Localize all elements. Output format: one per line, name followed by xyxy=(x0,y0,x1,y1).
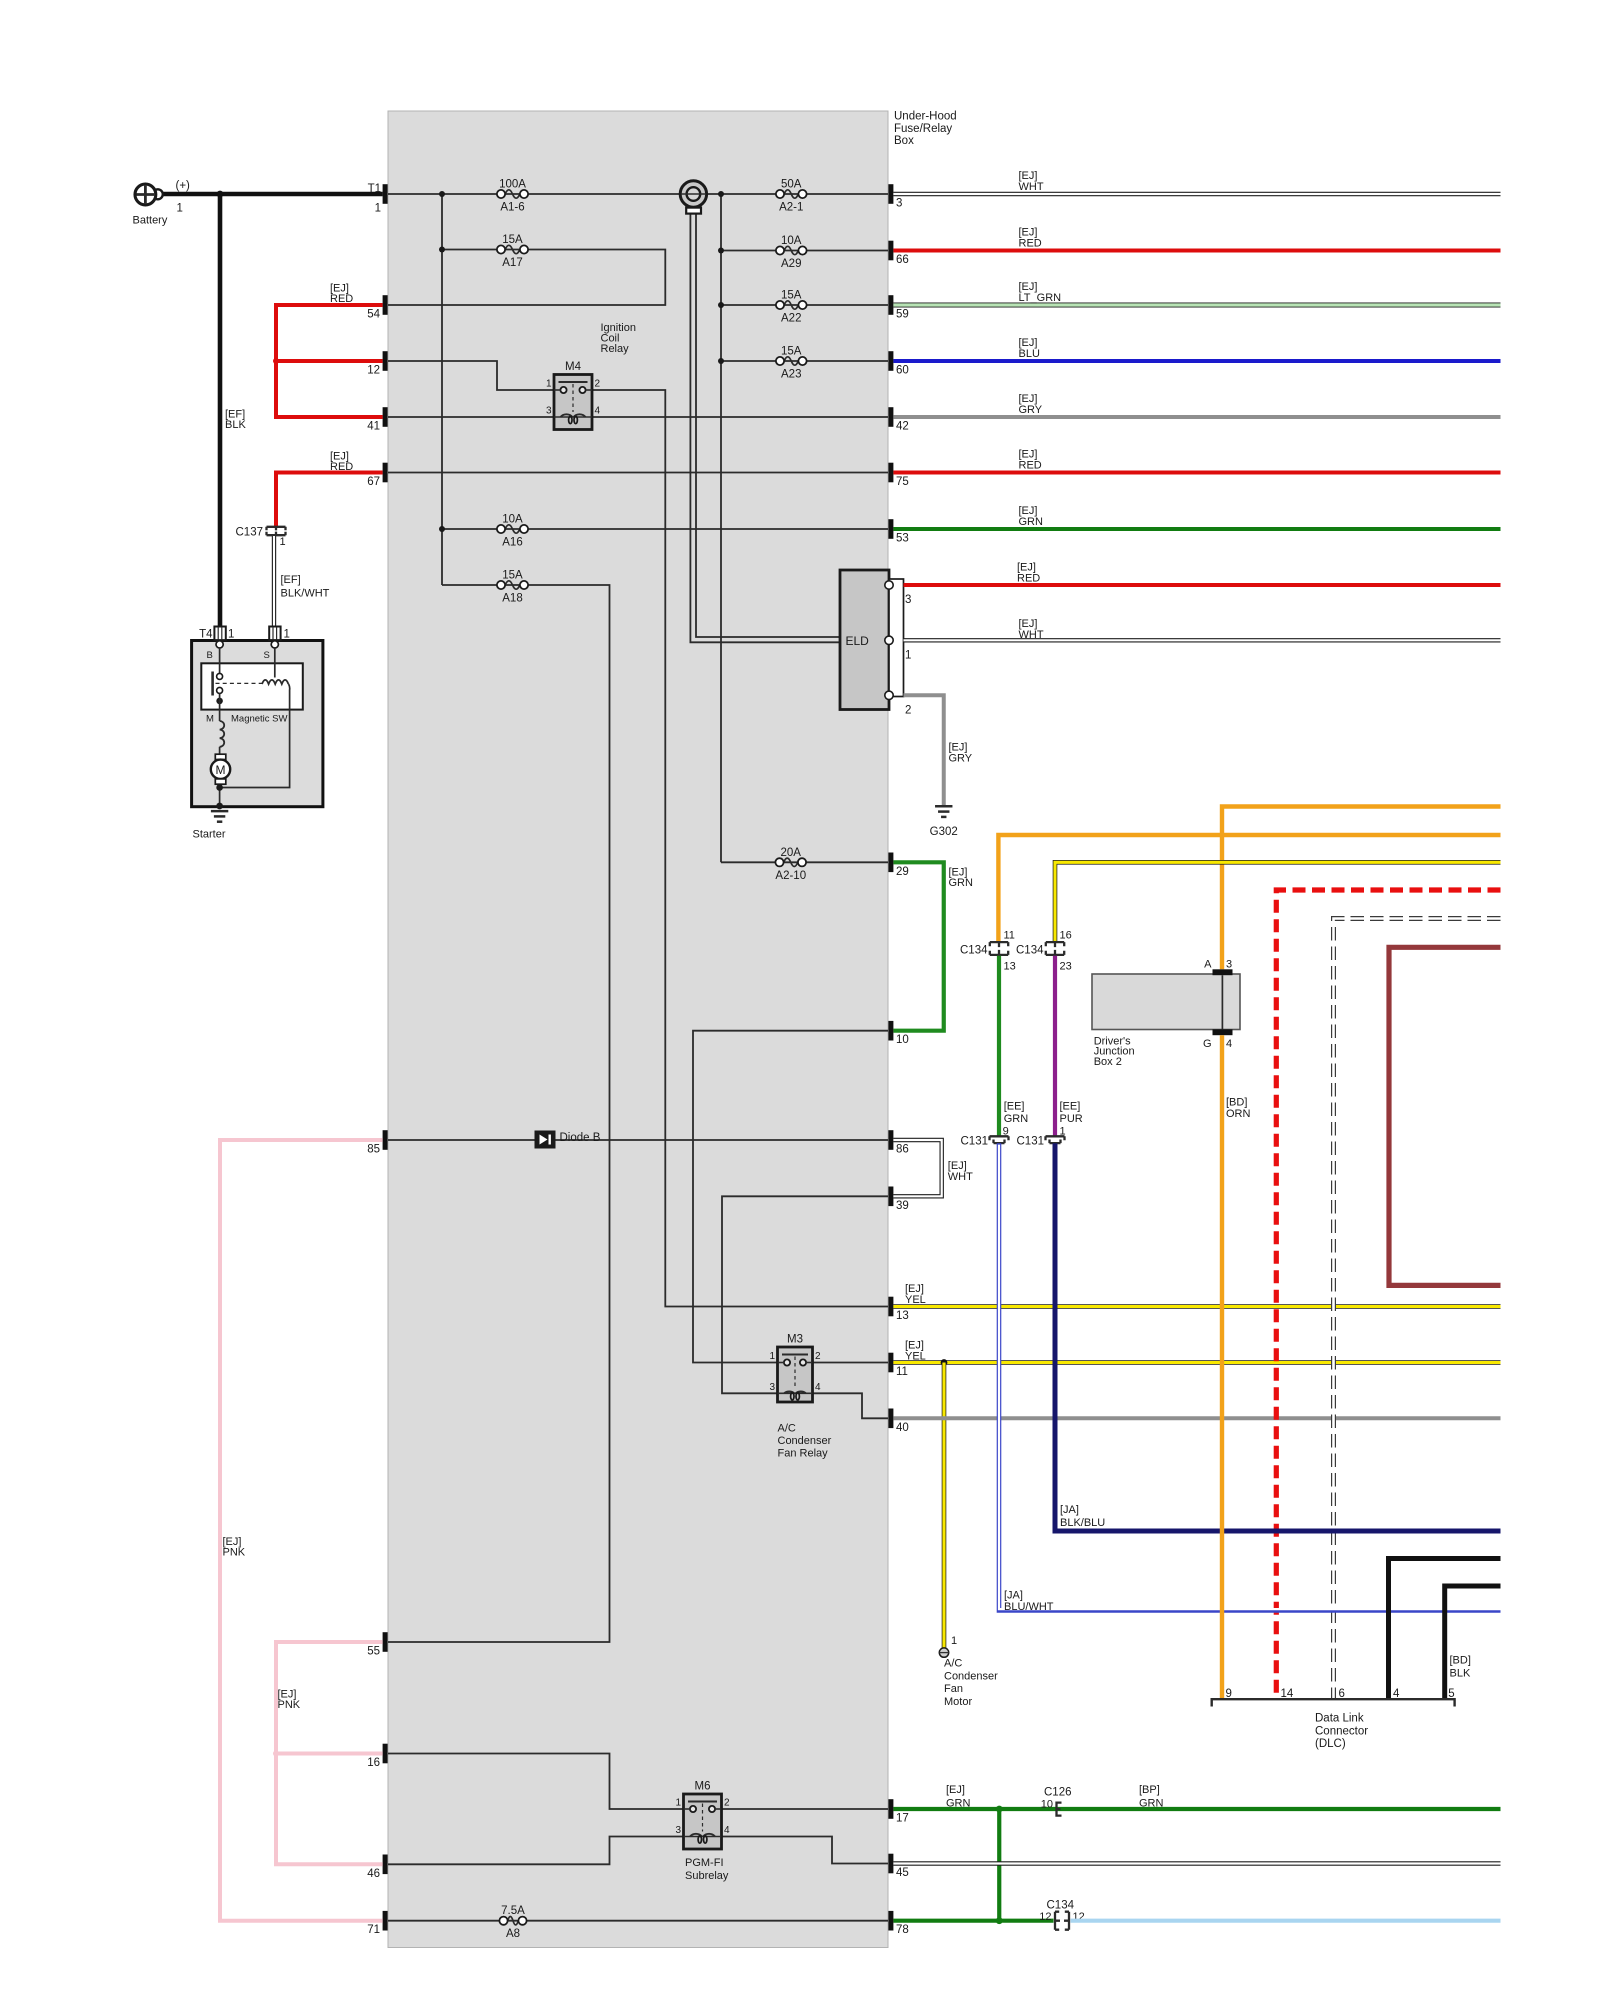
wire fuse A29 row to pin 66 xyxy=(721,250,888,252)
connector bar pin 42 (right edge) xyxy=(888,407,893,427)
wire [EJ] GRN pin 29 to pin 10 xyxy=(893,862,943,1030)
wire [EF] BLK/WHT C137 to starter S xyxy=(272,536,276,627)
svg-text:3: 3 xyxy=(905,594,911,606)
wire fuse A17 branch to pin 54 xyxy=(388,250,665,306)
wire DJB2 internal A-G xyxy=(1221,975,1223,1029)
svg-text:PUR: PUR xyxy=(1060,1113,1083,1125)
wire [JA] BLK/BLU C131-1 down and right xyxy=(1055,1143,1501,1531)
svg-text:A18: A18 xyxy=(502,593,522,605)
svg-text:15A: 15A xyxy=(781,346,802,358)
svg-text:M: M xyxy=(216,763,226,777)
svg-text:12: 12 xyxy=(367,365,380,377)
wire grommet bus outer line to ELD xyxy=(690,214,840,643)
starter contact fixed bar xyxy=(211,672,214,696)
wire contact to M coil xyxy=(219,693,221,721)
svg-text:M6: M6 xyxy=(695,1781,711,1793)
svg-text:60: 60 xyxy=(896,365,909,377)
wire T1 bus row (battery feed through 100A and 50A fuses to pin 3) xyxy=(388,193,888,195)
starter motor brush bottom xyxy=(215,779,226,784)
svg-text:BLU/WHT: BLU/WHT xyxy=(1004,1601,1054,1613)
junction green at x=999 (row 17) xyxy=(996,1806,1003,1813)
svg-text:78: 78 xyxy=(896,1924,909,1936)
svg-text:86: 86 xyxy=(896,1144,909,1156)
connector bar pin 55 (left edge) xyxy=(383,1632,388,1652)
svg-text:Condenser: Condenser xyxy=(778,1435,832,1447)
svg-text:G302: G302 xyxy=(930,826,958,838)
svg-text:A23: A23 xyxy=(781,369,801,381)
svg-text:53: 53 xyxy=(896,533,909,545)
svg-text:[BP]: [BP] xyxy=(1139,1784,1160,1796)
svg-text:6: 6 xyxy=(1339,1688,1345,1700)
wire [EJ] WHT pin 86 to pin 39 xyxy=(893,1140,941,1196)
svg-text:75: 75 xyxy=(896,476,909,488)
svg-text:Under-Hood: Under-Hood xyxy=(894,111,957,123)
starter contact lower point xyxy=(217,687,223,693)
wire [EJ] GRN pin 78 to C134-12 xyxy=(893,1919,1053,1923)
wire relay M3 pin 2 to pin 11 xyxy=(813,1362,889,1364)
svg-text:Relay: Relay xyxy=(601,343,630,355)
junction pink at pin 16 xyxy=(273,1751,279,1757)
fuse 20A A2-10 xyxy=(775,847,806,882)
svg-text:Fuse/Relay: Fuse/Relay xyxy=(894,123,952,135)
wire coil to motor xyxy=(219,747,221,754)
wire fuse A22 row to pin 59 xyxy=(721,304,888,306)
svg-text:9: 9 xyxy=(1003,1125,1009,1137)
wire motor to ground xyxy=(219,784,221,806)
connector bar pin 85 (left edge) xyxy=(383,1130,388,1150)
junction A17 feed xyxy=(439,247,445,253)
svg-text:LT_GRN: LT_GRN xyxy=(1019,292,1062,304)
starter motor M xyxy=(211,760,230,779)
svg-text:40: 40 xyxy=(896,1422,909,1434)
svg-text:1: 1 xyxy=(951,1635,957,1647)
connector C126 xyxy=(1057,1803,1062,1816)
wire red branch to pin 12 xyxy=(276,359,383,363)
svg-text:(DLC): (DLC) xyxy=(1315,1738,1346,1750)
wire vertical feed at x=442 xyxy=(441,194,443,585)
connector bar pin T1 (left edge) xyxy=(383,184,388,204)
wire YEL to C134 pin 16 xyxy=(1055,862,1501,941)
svg-text:C134: C134 xyxy=(1047,1900,1075,1912)
svg-text:A2-1: A2-1 xyxy=(779,202,803,214)
svg-text:2: 2 xyxy=(724,1798,730,1809)
wire [EJ] WHT ELD pin 1 xyxy=(904,638,1501,642)
svg-text:RED: RED xyxy=(330,461,353,473)
connector bar pin 13 (right edge) xyxy=(888,1297,893,1317)
wire ORN branch to C134 pin 11 xyxy=(998,835,1500,942)
svg-text:4: 4 xyxy=(1393,1688,1400,1700)
wire fuse A16 row to pin 53 xyxy=(442,528,888,530)
svg-text:A2-10: A2-10 xyxy=(775,870,806,882)
svg-text:A/C: A/C xyxy=(944,1658,962,1670)
wire [EJ] RED pin 66 xyxy=(893,249,1500,253)
wire [EJ] PNK pins 55/16/46 xyxy=(276,1642,383,1864)
wire red dashed (shield) xyxy=(1276,890,1500,1699)
svg-text:55: 55 xyxy=(367,1646,380,1658)
connector C134 (pin 11/13) xyxy=(990,942,1008,955)
DJB2 pin G bar xyxy=(1213,1029,1233,1035)
svg-text:WHT: WHT xyxy=(1019,629,1044,641)
svg-text:GRY: GRY xyxy=(1019,404,1043,416)
svg-text:5: 5 xyxy=(1448,1688,1454,1700)
svg-text:45: 45 xyxy=(896,1867,909,1879)
wire [EE] PUR C134-23 to C131-1 xyxy=(1053,956,1057,1136)
connector bar pin 46 (left edge) xyxy=(383,1855,388,1875)
svg-text:4: 4 xyxy=(724,1825,730,1836)
svg-text:PNK: PNK xyxy=(278,1699,301,1711)
wire dark-red loop xyxy=(1389,947,1501,1285)
svg-text:T4: T4 xyxy=(199,629,213,641)
svg-text:A: A xyxy=(1204,959,1212,971)
svg-text:13: 13 xyxy=(896,1310,909,1322)
svg-text:2: 2 xyxy=(815,1351,821,1362)
svg-text:1: 1 xyxy=(675,1798,681,1809)
fuse 15A A18 xyxy=(497,570,528,605)
starter S entry terminal xyxy=(271,641,278,648)
svg-text:G: G xyxy=(1203,1038,1212,1050)
svg-text:42: 42 xyxy=(896,421,909,433)
starter B entry terminal xyxy=(216,641,223,648)
diode Diode B xyxy=(535,1131,556,1149)
svg-text:RED: RED xyxy=(1019,459,1042,471)
svg-text:50A: 50A xyxy=(781,179,802,191)
connector bar pin 53 (right edge) xyxy=(888,519,893,539)
svg-text:GRN: GRN xyxy=(1004,1113,1028,1125)
wire [EJ] GRN pin 53 xyxy=(893,527,1500,531)
wire [EJ] RED pin 75 xyxy=(893,471,1500,475)
ELD unit xyxy=(840,570,904,710)
svg-text:GRN: GRN xyxy=(949,877,974,889)
wire pin 67 to pin 75 xyxy=(388,472,888,474)
svg-text:A29: A29 xyxy=(781,258,801,270)
svg-text:41: 41 xyxy=(367,421,380,433)
wire GRN branch rows 17-78 xyxy=(997,1809,1001,1921)
wire [BD] BLK to DLC pin 5 xyxy=(1445,1586,1501,1699)
svg-text:Subrelay: Subrelay xyxy=(685,1870,729,1882)
svg-text:A16: A16 xyxy=(502,537,522,549)
wire [EJ] RED pin 67 to C137 xyxy=(276,473,383,528)
connector C134 (pin 12/12) xyxy=(1055,1912,1069,1930)
svg-text:YEL: YEL xyxy=(905,1294,926,1306)
svg-text:RED: RED xyxy=(1019,237,1042,249)
fuse 10A A16 xyxy=(497,514,528,549)
svg-text:[EF]: [EF] xyxy=(281,574,301,586)
wire [JA] BLU/WHT C131-9 down and right xyxy=(999,1143,1501,1610)
svg-text:Battery: Battery xyxy=(133,215,168,227)
svg-text:A1-6: A1-6 xyxy=(500,202,524,214)
svg-text:WHT: WHT xyxy=(948,1171,973,1183)
wire [EJ] PNK pin 85 to pin 71 xyxy=(220,1140,383,1921)
svg-text:85: 85 xyxy=(367,1144,380,1156)
svg-text:1: 1 xyxy=(1060,1125,1066,1137)
wire [EJ] GRY pin 42 xyxy=(893,415,1500,419)
svg-text:17: 17 xyxy=(896,1813,909,1825)
wire [EJ] YEL pin 11 xyxy=(893,1360,1500,1365)
wire grommet bus inner line to ELD xyxy=(696,214,840,638)
svg-text:1: 1 xyxy=(546,379,552,390)
wire white dashed (shield) xyxy=(1334,919,1501,1700)
wire pin 12 to relay M4 pin 1 xyxy=(388,361,554,390)
svg-text:3: 3 xyxy=(769,1382,775,1393)
connector bar pin 16 (left edge) xyxy=(383,1744,388,1764)
svg-text:RED: RED xyxy=(1017,572,1040,584)
svg-text:11: 11 xyxy=(896,1366,908,1378)
wire [EE] GRN C134-13 to C131-9 xyxy=(997,956,1001,1136)
svg-text:71: 71 xyxy=(367,1924,380,1936)
wire relay M3 pin 4 to pin 40 xyxy=(813,1393,889,1418)
ELD pin 2 terminal xyxy=(885,691,893,699)
wire battery positive feed to T1 xyxy=(161,192,383,197)
svg-text:BLK: BLK xyxy=(225,419,246,431)
svg-text:[JA]: [JA] xyxy=(1004,1590,1023,1602)
connector bar pin 12 (left edge) xyxy=(383,351,388,371)
starter outer box xyxy=(192,641,323,807)
wire [EJ] YEL pin 13 xyxy=(893,1304,1500,1309)
svg-text:Fan: Fan xyxy=(944,1683,963,1695)
battery (+) terminal xyxy=(135,184,163,205)
svg-text:A22: A22 xyxy=(781,313,801,325)
svg-text:15A: 15A xyxy=(502,570,523,582)
wire [BD] BLK to DLC pin 4 xyxy=(1389,1559,1501,1700)
svg-text:20A: 20A xyxy=(781,847,802,859)
connector bar pin 54 (left edge) xyxy=(383,295,388,315)
fuse 100A A1-6 xyxy=(497,179,528,214)
wire pink branch to pin 16 xyxy=(276,1752,383,1756)
svg-text:1: 1 xyxy=(228,629,234,641)
svg-text:1: 1 xyxy=(375,203,381,215)
svg-text:GRN: GRN xyxy=(1019,516,1044,528)
svg-text:WHT: WHT xyxy=(1019,181,1044,193)
connector bar pin 29 (right edge) xyxy=(888,853,893,873)
Data Link Connector bracket xyxy=(1212,1699,1455,1706)
svg-text:Fan Relay: Fan Relay xyxy=(778,1448,829,1460)
ground G302 xyxy=(935,805,952,808)
junction motor return xyxy=(216,784,223,791)
svg-text:10: 10 xyxy=(1041,1799,1053,1811)
starter armature coil M xyxy=(220,721,225,747)
wire pin 71 through 7.5A fuse to pin 78 xyxy=(388,1920,888,1922)
connector C134 (pin 16/23) xyxy=(1046,942,1064,955)
wire battery feed down to starter T4 xyxy=(218,194,223,627)
wire LT_BLU after C134-12 xyxy=(1071,1919,1501,1923)
starter contact actuator dashed xyxy=(216,682,263,684)
svg-text:Motor: Motor xyxy=(944,1696,972,1708)
connector bar pin 45 (right edge) xyxy=(888,1854,893,1874)
wire pin 46 to relay M6 pin 3 xyxy=(388,1837,684,1865)
svg-text:[JA]: [JA] xyxy=(1060,1504,1079,1516)
svg-text:11: 11 xyxy=(1004,929,1015,941)
svg-text:4: 4 xyxy=(815,1382,821,1393)
svg-text:39: 39 xyxy=(896,1200,909,1212)
svg-text:14: 14 xyxy=(1281,1688,1294,1700)
ELD pin 1 terminal xyxy=(885,636,893,644)
wire [EJ] WHT pin 3 xyxy=(893,192,1500,196)
junction A23 feed xyxy=(718,358,724,364)
svg-text:[EE]: [EE] xyxy=(1004,1100,1025,1112)
svg-text:Data Link: Data Link xyxy=(1315,1713,1364,1725)
svg-text:PNK: PNK xyxy=(223,1546,246,1558)
connector bar pin 60 (right edge) xyxy=(888,351,893,371)
svg-text:10A: 10A xyxy=(781,235,802,247)
wire [EJ] GRN pin 17 row xyxy=(893,1807,1500,1811)
svg-text:13: 13 xyxy=(1004,961,1016,973)
starter solenoid coil xyxy=(262,680,288,684)
svg-text:3: 3 xyxy=(546,406,552,417)
wire relay M6 pin 2 to pin 17 xyxy=(722,1808,889,1810)
svg-text:Magnetic SW: Magnetic SW xyxy=(231,714,288,725)
svg-text:1: 1 xyxy=(905,649,911,661)
svg-text:C134: C134 xyxy=(960,945,988,957)
wire [EJ] BLU pin 60 xyxy=(893,359,1500,363)
svg-text:9: 9 xyxy=(1226,1688,1232,1700)
junction A22 feed xyxy=(718,302,724,308)
junction starter ground node xyxy=(216,803,223,810)
starter contact upper point xyxy=(217,673,223,679)
svg-text:M3: M3 xyxy=(787,1334,803,1346)
wire WHT pin 45 xyxy=(893,1861,1500,1865)
svg-text:3: 3 xyxy=(675,1825,681,1836)
fuse 15A A23 xyxy=(776,346,807,381)
under-hood fuse/relay box outline xyxy=(388,111,888,1948)
wire relay M4 pin 2 down to pin 13 xyxy=(592,390,888,1307)
wire [BD] ORN DJB2 pin G to DLC pin 9 xyxy=(1220,1035,1224,1699)
svg-text:[BD]: [BD] xyxy=(1226,1097,1247,1109)
svg-text:[EE]: [EE] xyxy=(1060,1100,1081,1112)
wire YEL branch to A/C condenser fan motor xyxy=(942,1363,947,1648)
wire [EJ] RED battery feed to pins 54/12/41 xyxy=(276,305,383,417)
svg-text:BLK/BLU: BLK/BLU xyxy=(1060,1517,1105,1529)
svg-text:Box: Box xyxy=(894,135,914,147)
svg-text:GRY: GRY xyxy=(949,752,973,764)
junction red at pin 12 row xyxy=(273,358,279,364)
relay M3 (A/C Condenser Fan Relay) xyxy=(769,1334,821,1403)
wire fuse A23 row to pin 60 xyxy=(721,360,888,362)
svg-text:10: 10 xyxy=(896,1034,909,1046)
svg-text:BLU: BLU xyxy=(1019,348,1040,360)
svg-text:Box 2: Box 2 xyxy=(1094,1056,1122,1068)
svg-text:15A: 15A xyxy=(502,234,523,246)
wire B to contact xyxy=(219,648,221,673)
wire pin 16 to relay M6 pin 1 xyxy=(388,1754,684,1810)
Driver's Junction Box 2 xyxy=(1092,974,1240,1030)
ground (starter case) xyxy=(211,810,228,813)
wire [EJ] LT_GRN pin 59 xyxy=(893,303,1500,308)
DJB2 pin A bar xyxy=(1213,969,1233,975)
svg-text:YEL: YEL xyxy=(905,1350,926,1362)
connector bar pin 10 (right edge) xyxy=(888,1021,893,1041)
svg-text:C137: C137 xyxy=(236,527,264,539)
svg-text:2: 2 xyxy=(905,704,911,716)
fuse 10A A29 xyxy=(776,235,807,270)
fuse 7.5A A8 xyxy=(499,1905,526,1940)
ring terminal on battery bus xyxy=(680,181,706,214)
junction 50A feed xyxy=(718,191,724,197)
svg-text:B: B xyxy=(207,650,213,661)
connector bar pin 75 (right edge) xyxy=(888,463,893,483)
wire vertical feed at x=721 (50A junction down to 20A fuse) xyxy=(720,194,722,862)
svg-text:23: 23 xyxy=(1060,961,1072,973)
svg-text:M: M xyxy=(206,714,214,725)
svg-text:59: 59 xyxy=(896,309,909,321)
fuse 15A A22 xyxy=(776,290,807,325)
wire pin 10 to relay M3 pin 1 xyxy=(693,1031,888,1363)
svg-text:Diode B: Diode B xyxy=(560,1132,601,1144)
junction yellow branch to fan motor xyxy=(941,1359,948,1366)
svg-text:C126: C126 xyxy=(1044,1787,1072,1799)
svg-text:BLK/WHT: BLK/WHT xyxy=(281,588,330,600)
connector C131 (pin 9) xyxy=(990,1136,1009,1143)
svg-text:GRN: GRN xyxy=(946,1798,971,1810)
svg-text:ELD: ELD xyxy=(846,634,870,648)
wire pin 41 through relay M4 coil to pin 42 xyxy=(388,416,888,418)
svg-text:16: 16 xyxy=(1060,929,1072,941)
connector bar pin 40 (right edge) xyxy=(888,1409,893,1429)
svg-text:4: 4 xyxy=(1226,1038,1232,1050)
wire 20A fuse row to pin 29 xyxy=(721,861,888,863)
wire solenoid return to motor bottom xyxy=(220,684,290,788)
relay M4 (Ignition Coil Relay) xyxy=(546,361,601,430)
fuse 50A A2-1 xyxy=(776,179,807,214)
connector bar pin 86 (right edge) xyxy=(888,1130,893,1150)
svg-text:Starter: Starter xyxy=(193,829,226,841)
starter T4 connector xyxy=(214,627,225,641)
svg-text:S: S xyxy=(264,650,270,661)
svg-text:46: 46 xyxy=(367,1868,380,1880)
svg-text:A/C: A/C xyxy=(778,1423,796,1435)
svg-text:GRN: GRN xyxy=(1139,1798,1164,1810)
svg-text:2: 2 xyxy=(595,379,601,390)
svg-text:10A: 10A xyxy=(502,514,523,526)
junction battery branch xyxy=(217,191,224,198)
svg-text:Condenser: Condenser xyxy=(944,1670,998,1682)
svg-text:RED: RED xyxy=(330,293,353,305)
connector bar pin 39 (right edge) xyxy=(888,1187,893,1207)
svg-text:PGM-FI: PGM-FI xyxy=(685,1857,724,1869)
svg-text:1: 1 xyxy=(177,203,183,215)
svg-text:4: 4 xyxy=(595,406,601,417)
wire S to solenoid coil xyxy=(274,648,276,678)
wire fuse A18 branch down to pin 55 xyxy=(388,585,610,1642)
svg-text:Connector: Connector xyxy=(1315,1725,1368,1737)
svg-text:C131: C131 xyxy=(1017,1136,1045,1148)
junction T1/x442 xyxy=(439,191,445,197)
wire [BD] ORN upper to DJB2 pin A xyxy=(1222,807,1501,970)
svg-text:67: 67 xyxy=(367,476,380,488)
svg-text:16: 16 xyxy=(367,1757,380,1769)
connector bar pin 17 (right edge) xyxy=(888,1799,893,1819)
starter motor brush top xyxy=(215,754,226,759)
wire [EJ] RED ELD pin 3 xyxy=(904,583,1501,587)
svg-text:29: 29 xyxy=(896,866,909,878)
starter S connector xyxy=(269,627,280,641)
svg-text:A8: A8 xyxy=(506,1928,520,1940)
svg-text:M4: M4 xyxy=(565,361,582,373)
svg-text:7.5A: 7.5A xyxy=(501,1905,525,1917)
svg-text:100A: 100A xyxy=(499,179,526,191)
connector bar pin 67 (left edge) xyxy=(383,463,388,483)
svg-text:[EJ]: [EJ] xyxy=(946,1784,965,1796)
connector bar pin 3 (right edge) xyxy=(888,184,893,204)
connector bar pin 11 (right edge) xyxy=(888,1353,893,1373)
svg-text:ORN: ORN xyxy=(1226,1108,1251,1120)
svg-text:(+): (+) xyxy=(176,180,191,192)
svg-text:3: 3 xyxy=(1226,959,1232,971)
fuse 15A A17 xyxy=(497,234,528,269)
connector bar pin 41 (left edge) xyxy=(383,407,388,427)
svg-text:1: 1 xyxy=(284,629,290,641)
svg-text:A17: A17 xyxy=(502,257,522,269)
connector bar pin 71 (left edge) xyxy=(383,1911,388,1931)
